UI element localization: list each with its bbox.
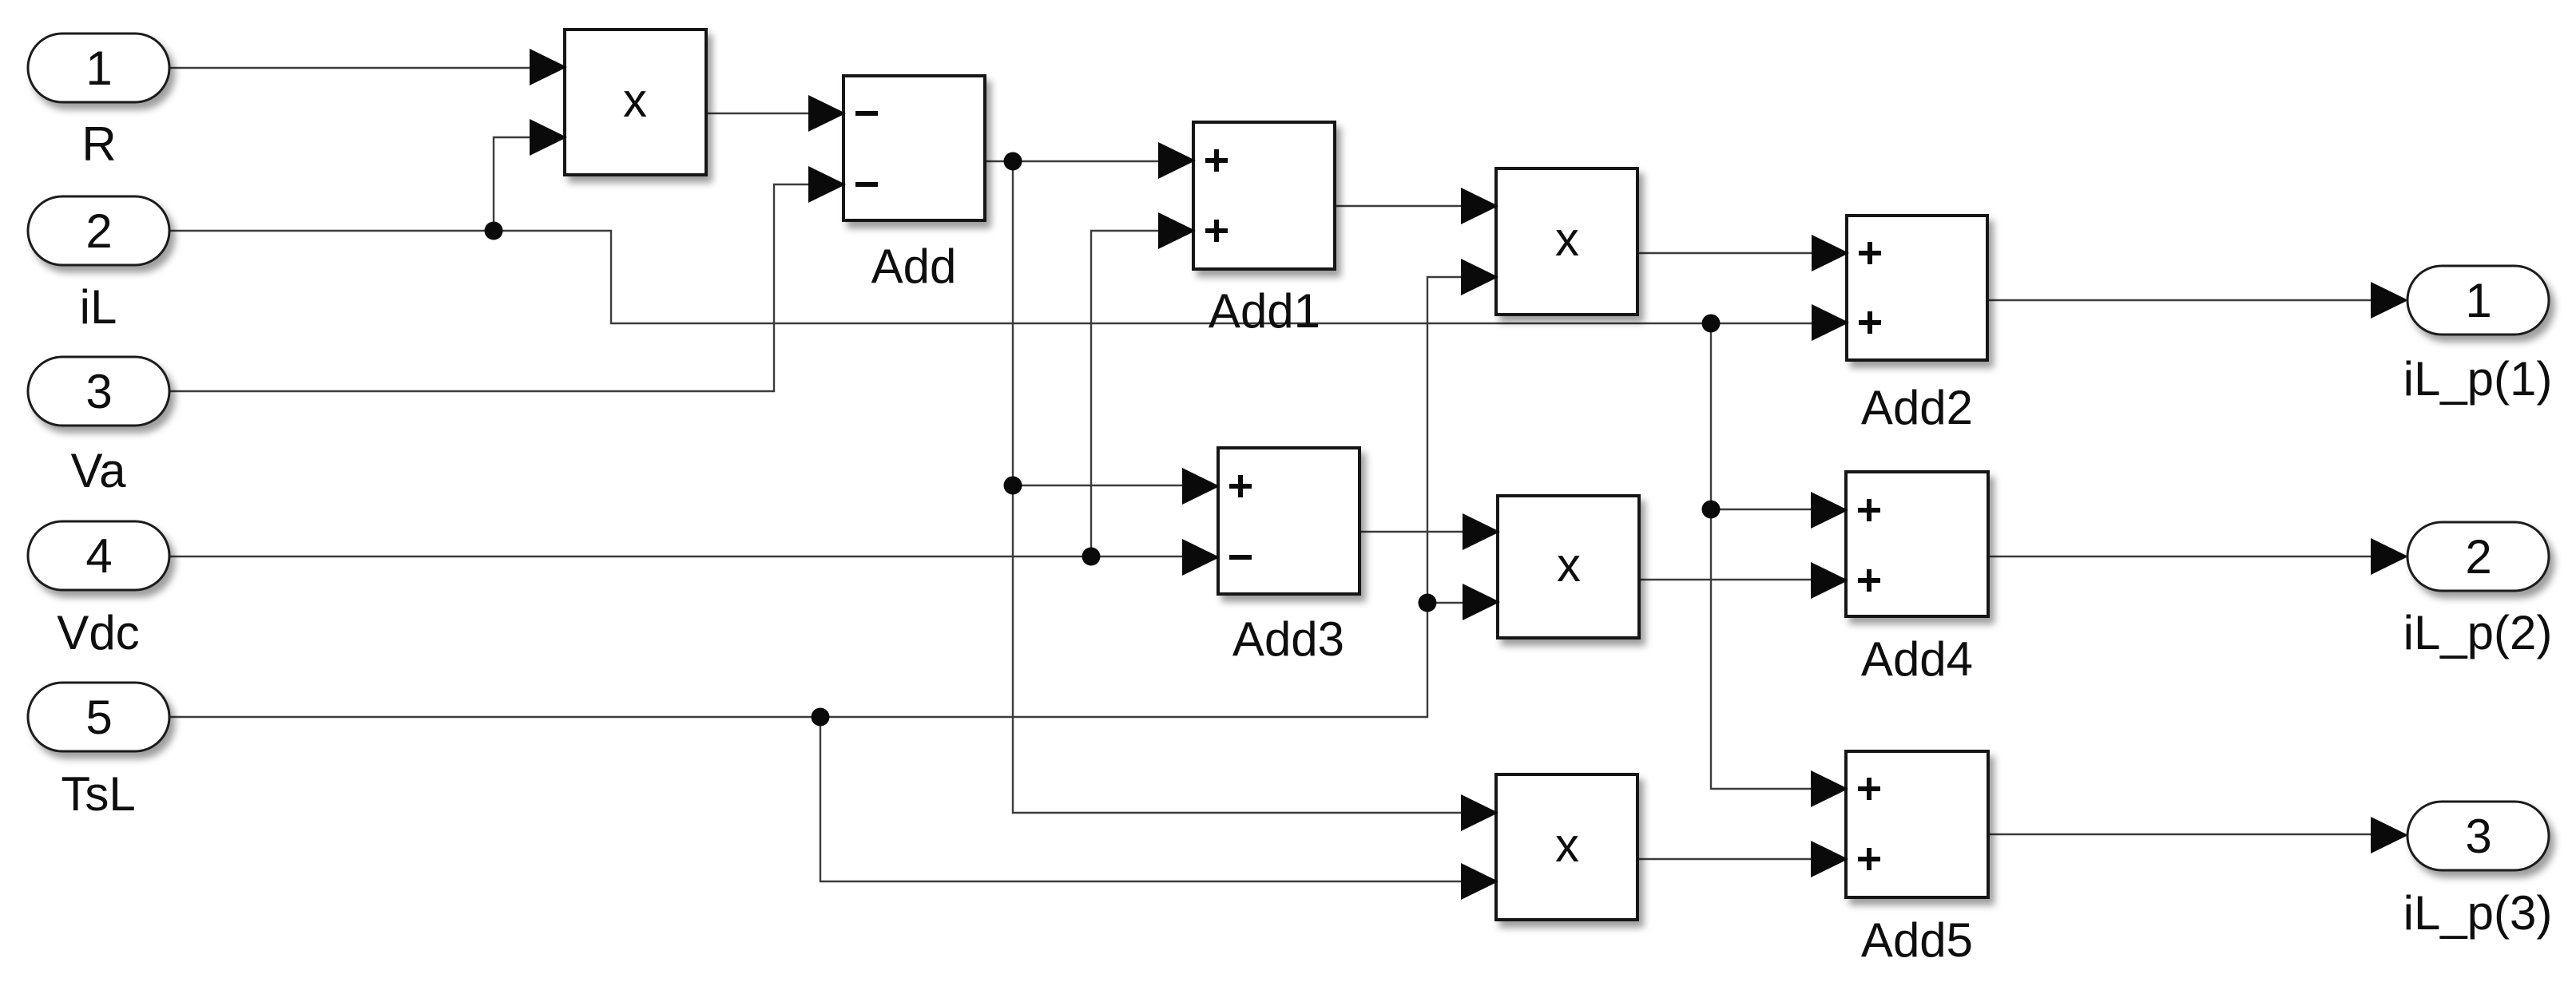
wire riser spur to Add4 in1: [1711, 509, 1813, 510]
arrowhead Add1 in2: [1158, 212, 1196, 249]
wire Product3 out to Add5 in2: [1638, 858, 1813, 860]
wire TsL: Inport5 run, riser to Product1 in2: [170, 277, 1462, 717]
label Vdc: [57, 606, 139, 659]
wire riser to Add4/Add5 first inputs: [1711, 323, 1813, 789]
arrowhead Add2 in2: [1812, 304, 1849, 341]
label TsL: [61, 767, 135, 821]
arrowhead into Outport2: [2371, 538, 2408, 575]
label Add5: [1861, 913, 1973, 967]
wire Product2 out to Add4 in2: [1639, 579, 1813, 580]
inport 2 (iL): [28, 196, 169, 265]
label Add2: [1861, 381, 1973, 434]
wire TsL spur into Product2 in2: [1427, 602, 1465, 604]
label Va: [71, 444, 127, 497]
arrowhead Product3 in1: [1461, 794, 1498, 831]
svg-text:1: 1: [2465, 274, 2491, 327]
node riser top junction on iL run: [1702, 315, 1721, 333]
wire Product1 out to Add2 in1: [1637, 252, 1813, 254]
arrowhead Product1 in2: [1461, 259, 1498, 295]
wire Add1 out to Product1 in1: [1335, 205, 1463, 207]
wire Add4 out to Outport2: [1987, 556, 2372, 557]
wire Va: Inport3 to Add in2: [170, 184, 810, 391]
arrowhead into Outport1: [2371, 282, 2408, 319]
svg-text:x: x: [1557, 538, 1581, 592]
label Add: [871, 240, 957, 293]
label R: [81, 117, 116, 171]
svg-text:iL: iL: [80, 280, 117, 334]
node Add out lower junction: [1004, 477, 1022, 495]
sum block Add3 (+ -): [1218, 448, 1359, 594]
svg-text:2: 2: [85, 204, 112, 258]
arrowhead Add4 in1: [1811, 492, 1848, 529]
svg-text:x: x: [1555, 818, 1579, 872]
svg-text:Add: Add: [871, 240, 957, 293]
svg-text:Va: Va: [71, 444, 127, 497]
arrowhead Product2 in1: [1463, 513, 1500, 550]
svg-text:x: x: [623, 73, 647, 127]
wire iL branch to Add2 in2 (long run): [494, 231, 1813, 323]
label iL_p(1): [2403, 352, 2553, 406]
svg-text:Add1: Add1: [1209, 284, 1320, 338]
wire TsL branch down to Product3 in2: [820, 717, 1462, 881]
arrowhead Add2 in1: [1812, 235, 1849, 271]
arrowhead Product3 in2: [1461, 863, 1498, 900]
svg-text:Add5: Add5: [1861, 913, 1973, 967]
arrowhead Product in1: [530, 49, 567, 85]
product block Product2 (x) middle: [1498, 496, 1639, 638]
svg-text:1: 1: [85, 42, 112, 95]
node iL junction: [485, 222, 503, 240]
inport 3 (Va): [28, 357, 169, 426]
node Vdc junction: [1082, 548, 1101, 566]
arrowhead Add3 in1: [1182, 468, 1220, 505]
wire Add5 out to Outport3: [1987, 834, 2372, 835]
svg-text:4: 4: [85, 529, 112, 583]
arrowhead Product1 in1: [1461, 188, 1498, 224]
outport 3 (iL_p(3)): [2407, 802, 2549, 870]
svg-text:x: x: [1555, 212, 1579, 266]
wire iL branch up into Product in2: [494, 137, 530, 231]
sum block Add5 (+ +): [1846, 751, 1988, 897]
label iL_p(3): [2403, 886, 2553, 940]
wire R: Inport1 to Product in1: [170, 67, 530, 69]
arrowhead Product2 in2: [1463, 584, 1500, 620]
node riser junction at Add4 level: [1702, 501, 1721, 519]
product block Product1 (x) upper: [1496, 168, 1637, 315]
wire Vdc branch up into Add1 in2: [1091, 231, 1160, 556]
svg-text:2: 2: [2465, 530, 2491, 584]
arrowhead Add4 in2: [1811, 562, 1848, 599]
svg-text:iL_p(3): iL_p(3): [2403, 886, 2553, 940]
outport 2 (iL_p(2)): [2407, 522, 2549, 591]
wire Add3 out to Product2 in1: [1359, 531, 1465, 533]
arrowhead Product in2: [530, 119, 567, 156]
svg-text:iL_p(2): iL_p(2): [2403, 606, 2553, 659]
wire Add out vertical to Product3 in1: [1013, 161, 1463, 813]
wire Add out to Add1 in1: [985, 160, 1160, 162]
sum block Add (- -): [843, 76, 985, 220]
svg-text:Add4: Add4: [1861, 632, 1973, 686]
svg-text:5: 5: [85, 691, 112, 744]
label iL_p(2): [2403, 606, 2553, 659]
sum block Add1 (+ +): [1193, 122, 1335, 269]
label Add3: [1232, 612, 1344, 666]
label Add1: [1209, 284, 1320, 338]
node Add out junction: [1004, 152, 1022, 171]
arrowhead Add3 in2: [1182, 539, 1220, 576]
svg-text:R: R: [81, 117, 116, 171]
sum block Add2 (+ +): [1847, 216, 1987, 360]
node TsL junction riser: [1419, 594, 1437, 612]
inport 1 (R): [28, 34, 169, 102]
svg-text:TsL: TsL: [61, 767, 135, 821]
arrowhead Add5 in2: [1811, 841, 1848, 877]
wire iL: Inport2 to junction: [170, 230, 494, 232]
sum block Add4 (+ +): [1846, 472, 1988, 616]
label Add4: [1861, 632, 1973, 686]
product block Product3 (x) bottom: [1496, 774, 1637, 920]
label iL: [80, 280, 117, 334]
svg-text:3: 3: [2465, 810, 2491, 863]
product block Product (x): [565, 30, 706, 175]
inport 5 (TsL): [28, 683, 169, 751]
svg-text:Add3: Add3: [1232, 612, 1344, 666]
svg-text:Add2: Add2: [1861, 381, 1973, 434]
inport 4 (Vdc): [28, 521, 169, 590]
arrowhead Add in1: [808, 95, 846, 132]
svg-text:3: 3: [85, 365, 112, 418]
wire Vdc: Inport4 to Add3 in2: [170, 556, 1182, 557]
wire Product out to Add in1: [705, 113, 810, 114]
node TsL junction lower: [812, 708, 830, 727]
svg-text:Vdc: Vdc: [57, 606, 139, 659]
arrowhead Add1 in1: [1158, 142, 1196, 179]
wire Add out spur to Add3 in1: [1013, 485, 1184, 486]
outport 1 (iL_p(1)): [2407, 266, 2549, 335]
svg-text:iL_p(1): iL_p(1): [2403, 352, 2553, 406]
wire Add2 out to Outport1: [1987, 299, 2372, 301]
arrowhead Add5 in1: [1811, 770, 1848, 807]
arrowhead Add in2: [808, 166, 846, 203]
arrowhead into Outport3: [2371, 817, 2408, 853]
